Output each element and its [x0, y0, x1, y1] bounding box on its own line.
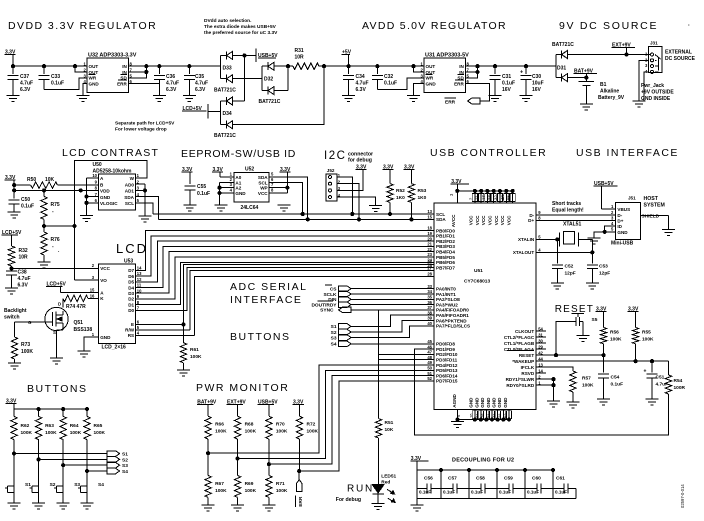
svg-text:R75: R75 — [51, 202, 60, 208]
svg-text:R54: R54 — [674, 378, 683, 384]
wire A pin — [60, 292, 98, 294]
svg-text:D6: D6 — [128, 274, 134, 279]
svg-text:For lower voltage drop: For lower voltage drop — [115, 127, 167, 133]
power flag 3.3V pwr monitor — [293, 400, 304, 417]
ground J51 — [588, 238, 601, 244]
svg-text:R31: R31 — [295, 48, 304, 54]
wire LCD D4 to PB3 — [136, 246, 434, 287]
svg-text:R70: R70 — [276, 422, 285, 428]
svg-text:ERR: ERR — [445, 100, 456, 106]
capacitor C34 — [343, 66, 368, 95]
lcd data pins D7-D0 — [128, 266, 142, 314]
led LED51 — [372, 474, 396, 504]
wire U50 SDA to bus — [135, 197, 158, 220]
wire U52 SDA to bus — [269, 177, 309, 221]
svg-text:C31: C31 — [502, 74, 511, 80]
wire pwr monitor ERR to PD — [299, 381, 434, 471]
svg-text:9V DC SOURCE: 9V DC SOURCE — [559, 20, 658, 32]
power flag BAT+9V pwr monitor — [197, 400, 217, 417]
svg-text:VCC: VCC — [100, 266, 110, 271]
svg-text:S1: S1 — [25, 482, 31, 488]
lcd pin VO — [92, 275, 108, 283]
svg-text:J51: J51 — [628, 196, 636, 201]
ground U1 — [451, 422, 464, 428]
capacitor C53 — [587, 252, 610, 283]
ground R57 — [566, 402, 579, 408]
wire 3.3V to VDD — [13, 189, 81, 192]
svg-text:R71: R71 — [276, 481, 285, 487]
ground LCD — [78, 351, 91, 357]
svg-text:20: 20 — [427, 236, 432, 241]
svg-text:VLOGIC: VLOGIC — [100, 201, 118, 206]
power flag 3.3V U1 — [451, 179, 469, 191]
svg-text:PA2/*SLOE: PA2/*SLOE — [436, 297, 460, 302]
title DVDD 3.3V REGULATOR — [8, 20, 157, 32]
svg-text:4.7uF: 4.7uF — [195, 81, 208, 87]
U1 right pin labels — [504, 210, 544, 388]
wire U52 A1 A2 GND tie — [218, 182, 234, 205]
svg-text:CLKOUT: CLKOUT — [515, 329, 534, 334]
diode D34 dual — [214, 97, 245, 139]
capacitor C55 — [184, 184, 210, 205]
title PWR MONITOR — [196, 382, 289, 394]
wire pwr monitor EXT to PD — [238, 370, 434, 458]
svg-text:DVDD 3.3V REGULATOR: DVDD 3.3V REGULATOR — [8, 20, 157, 32]
svg-text:D1: D1 — [128, 302, 134, 307]
text pwr jack — [641, 83, 674, 102]
wire CLKOUT stub — [536, 330, 546, 332]
ground C54 — [597, 399, 610, 405]
svg-text:WR: WR — [426, 76, 434, 81]
svg-text:S1: S1 — [331, 324, 337, 330]
title BUTTONS bottom — [27, 383, 87, 395]
svg-text:16V: 16V — [502, 87, 512, 93]
ground S4 — [81, 503, 94, 509]
junction button 4 — [85, 469, 88, 472]
svg-text:S2: S2 — [122, 457, 128, 463]
svg-text:ID: ID — [617, 224, 622, 229]
svg-text:11: 11 — [475, 195, 480, 200]
svg-text:18: 18 — [427, 226, 432, 231]
svg-text:R55: R55 — [642, 330, 651, 336]
lcd pin K — [90, 294, 105, 302]
wire U32 OUT tie — [73, 65, 87, 72]
ground R76 — [38, 262, 51, 268]
svg-text:Short tracks: Short tracks — [552, 201, 581, 207]
power flag 3.3V J52 — [356, 165, 367, 171]
svg-text:S3: S3 — [331, 335, 337, 341]
svg-text:XTAL51: XTAL51 — [563, 222, 581, 228]
text backlight switch — [4, 308, 32, 325]
svg-text:U50: U50 — [93, 162, 102, 168]
svg-text:C35: C35 — [195, 74, 204, 80]
diode D31 dual — [552, 42, 650, 82]
eeprom U52 24LC64 — [230, 167, 274, 212]
svg-text:PA1/INT1: PA1/INT1 — [436, 292, 456, 297]
svg-text:C55: C55 — [197, 184, 206, 190]
svg-text:A2: A2 — [235, 186, 241, 191]
resistor R56 100K — [600, 328, 622, 356]
svg-text:0.1uF: 0.1uF — [611, 382, 624, 388]
wire LCD VO — [75, 279, 99, 281]
wire LCD GND — [84, 337, 99, 351]
svg-text:Red: Red — [381, 479, 390, 485]
wire avdd rail right — [478, 65, 556, 67]
svg-text:0.1uF: 0.1uF — [471, 490, 483, 495]
power flag LCD+5V contrast — [2, 230, 22, 246]
net flag ERR pwr — [296, 471, 304, 507]
svg-text:C37: C37 — [20, 74, 29, 80]
svg-text:D2: D2 — [128, 297, 134, 302]
svg-text:R50: R50 — [27, 177, 36, 183]
wire vcc riser — [88, 267, 99, 269]
svg-text:AVCC: AVCC — [451, 214, 456, 227]
svg-text:XTALIN: XTALIN — [518, 237, 535, 242]
wire source to ground — [57, 327, 64, 358]
capacitor C51 — [644, 360, 669, 399]
svg-text:S1: S1 — [122, 452, 128, 458]
title LCD CONTRAST — [62, 147, 159, 159]
svg-text:VCC: VCC — [475, 215, 480, 225]
ground shield — [662, 230, 675, 236]
wire R31 node down to D34 bottom — [233, 66, 325, 125]
svg-text:D+: D+ — [617, 218, 623, 223]
svg-text:S4: S4 — [98, 482, 104, 488]
svg-text:GND: GND — [475, 397, 480, 408]
svg-text:0.1uF: 0.1uF — [443, 490, 455, 495]
svg-text:6.3V: 6.3V — [195, 87, 206, 93]
svg-text:44: 44 — [538, 356, 543, 361]
capacitor C54 — [598, 355, 623, 399]
svg-text:D31: D31 — [557, 66, 566, 72]
junction R31 node — [322, 65, 325, 68]
svg-text:31: 31 — [538, 332, 543, 337]
power flag EXT+9V pwr monitor — [227, 400, 247, 417]
svg-text:D3: D3 — [128, 291, 134, 296]
svg-text:PB1/FD1: PB1/FD1 — [436, 234, 455, 239]
power flag LCD+5V backlight — [46, 282, 66, 293]
ground C53 — [586, 283, 599, 289]
wire button S4 net — [87, 468, 128, 475]
crystal XTAL51 — [560, 222, 593, 247]
junction pwr USB — [267, 463, 270, 466]
ground U50 right — [139, 216, 152, 222]
svg-text:IN: IN — [122, 64, 127, 69]
svg-text:VCC: VCC — [481, 215, 486, 225]
svg-text:BUTTONS: BUTTONS — [230, 331, 290, 343]
svg-text:DIN: DIN — [328, 297, 337, 303]
svg-text:1K0: 1K0 — [418, 195, 427, 201]
svg-text:33: 33 — [427, 284, 432, 289]
svg-text:DVdd auto selection.: DVdd auto selection. — [204, 18, 251, 24]
svg-text:D32: D32 — [264, 77, 273, 83]
svg-text:D-: D- — [617, 213, 622, 218]
svg-text:RUN: RUN — [347, 484, 374, 495]
svg-text:J31: J31 — [650, 41, 658, 46]
wire J51 GND — [594, 230, 615, 238]
svg-text:S5: S5 — [592, 317, 598, 323]
ground C50 — [8, 212, 21, 218]
battery B1 — [579, 78, 625, 104]
svg-text:D+: D+ — [528, 218, 534, 223]
svg-text:D5: D5 — [128, 280, 134, 285]
svg-text:0.1uF: 0.1uF — [499, 490, 511, 495]
wire WAKEUP net — [536, 360, 668, 363]
ground C30 — [520, 96, 533, 102]
svg-text:OUT: OUT — [426, 64, 436, 69]
note short tracks — [552, 201, 584, 214]
svg-text:SDA: SDA — [258, 175, 268, 180]
power flag USB+5V pwr monitor — [258, 400, 279, 417]
svg-text:55: 55 — [506, 195, 511, 200]
wire CTL1 stub — [536, 342, 546, 344]
svg-text:PD4/FD12: PD4/FD12 — [436, 363, 458, 368]
svg-text:4.7uF: 4.7uF — [166, 81, 179, 87]
svg-text:+: + — [644, 369, 647, 375]
power flag USB+5V J51 — [594, 181, 618, 209]
svg-text:U53: U53 — [124, 259, 133, 265]
svg-text:PB7/FD7: PB7/FD7 — [436, 265, 455, 270]
ground R73 — [8, 363, 21, 369]
title USB INTERFACE — [576, 147, 679, 159]
svg-text:C30: C30 — [532, 74, 541, 80]
wire LCD D5 to PB2 — [136, 241, 434, 282]
svg-text:SCL: SCL — [125, 201, 134, 206]
wire J31 pin4 — [639, 72, 649, 101]
title RUN — [336, 484, 374, 503]
resistor R54 100R — [665, 361, 685, 394]
svg-text:S4: S4 — [122, 469, 128, 475]
wire 3.3V rail — [13, 65, 75, 67]
svg-text:100K: 100K — [307, 429, 319, 435]
svg-text:40: 40 — [427, 321, 432, 326]
switch S1 — [5, 454, 31, 503]
svg-text:C58: C58 — [476, 476, 485, 482]
wire pwr monitor USB to PD — [269, 376, 434, 465]
svg-text:CY7C68013: CY7C68013 — [464, 279, 490, 285]
svg-text:34: 34 — [427, 289, 432, 294]
svg-text:RDY0/*SLRD: RDY0/*SLRD — [506, 383, 535, 388]
junction USB+5V node — [243, 54, 246, 57]
svg-text:100K: 100K — [45, 430, 57, 436]
svg-text:D33: D33 — [223, 66, 232, 72]
ground S3 — [57, 503, 70, 509]
svg-text:C61: C61 — [556, 476, 565, 482]
ground U52 right — [278, 205, 291, 211]
svg-text:PB3/FD3: PB3/FD3 — [436, 244, 455, 249]
ground C35 — [183, 96, 196, 102]
svg-text:24: 24 — [427, 258, 432, 263]
power flag 3.3V lcd contrast — [5, 175, 16, 190]
svg-text:D0: D0 — [128, 308, 134, 313]
svg-text:BUTTONS: BUTTONS — [27, 383, 87, 395]
junction C36 — [158, 65, 161, 68]
svg-text:PA7/*FLD/SLCS: PA7/*FLD/SLCS — [436, 324, 470, 329]
svg-text:100R: 100R — [674, 385, 686, 391]
svg-text:R61: R61 — [190, 347, 199, 353]
svg-text:49: 49 — [427, 360, 432, 365]
wire LCD D0 to PB7 — [136, 268, 434, 311]
resistor R55 100K — [632, 328, 654, 362]
U1 ground pins — [452, 393, 512, 421]
flaga underline — [507, 350, 534, 352]
junction C31 — [493, 65, 496, 68]
title AVDD 5.0V REGULATOR — [362, 20, 507, 32]
ground J52 — [369, 206, 382, 212]
svg-text:PD6/FD14: PD6/FD14 — [436, 373, 458, 378]
svg-text:GND: GND — [491, 397, 496, 408]
power flag BAT+9V — [574, 69, 598, 80]
resistor R32 10R — [8, 246, 28, 266]
capacitor C37 — [8, 66, 34, 95]
svg-text:51: 51 — [427, 371, 432, 376]
svg-text:0.1uF: 0.1uF — [197, 191, 210, 197]
resistor R72 100K — [296, 416, 318, 471]
wire XTALIN — [536, 238, 559, 241]
ground Q51 source — [50, 358, 63, 364]
junction pwr ERR — [298, 470, 301, 473]
svg-text:PD3/FD11: PD3/FD11 — [436, 358, 458, 363]
svg-text:D34: D34 — [223, 111, 232, 117]
decoupling capacitors C56-C61 — [417, 470, 576, 505]
svg-text:GND: GND — [486, 397, 491, 408]
svg-text:U51: U51 — [474, 268, 483, 274]
wire LCD RW to U1 pin 27 — [136, 266, 434, 330]
ground U52 left — [215, 205, 228, 211]
wire rail to C32 — [349, 65, 417, 67]
ground S1 — [8, 503, 21, 509]
svg-text:C36: C36 — [166, 74, 175, 80]
connector J51 mini-usb — [611, 196, 641, 247]
wire J51 ID — [605, 226, 616, 232]
svg-text:XTALOUT: XTALOUT — [513, 250, 535, 255]
wire U32 IN tie — [128, 65, 148, 78]
svg-text:BSS138: BSS138 — [74, 327, 93, 333]
capacitor C52 — [552, 239, 576, 283]
svg-text:IFCLK: IFCLK — [521, 365, 535, 370]
power flag 3.3V R52 — [383, 165, 394, 184]
wire RSVD stub — [536, 372, 546, 374]
wire RESET net — [536, 354, 605, 357]
svg-text:A1: A1 — [235, 180, 241, 185]
lcd pin E — [131, 320, 140, 328]
svg-text:21: 21 — [427, 242, 432, 247]
wire buttons rail — [14, 408, 87, 410]
svg-text:RESET: RESET — [519, 353, 535, 358]
ground C36 — [153, 96, 166, 102]
svg-text:4.7uF: 4.7uF — [18, 276, 31, 282]
svg-text:C50: C50 — [21, 197, 30, 203]
svg-text:0.1uF: 0.1uF — [527, 490, 539, 495]
svg-text:BAT721C: BAT721C — [552, 42, 574, 48]
wire U31 IN tie — [465, 65, 479, 78]
svg-text:J52: J52 — [327, 168, 335, 173]
wire IFCLK to R57 — [536, 367, 573, 371]
svg-text:37: 37 — [427, 305, 432, 310]
title ADC SERIAL INTERFACE — [230, 281, 307, 306]
power flag 3.3V A0 — [212, 167, 223, 177]
wire WP VCC tie — [269, 186, 289, 193]
ground LED51 — [372, 504, 385, 510]
svg-text:+9V OUTSIDE: +9V OUTSIDE — [641, 90, 674, 96]
svg-text:R65: R65 — [94, 423, 103, 429]
ground S5 — [577, 336, 590, 342]
svg-text:24LC64: 24LC64 — [241, 205, 259, 211]
svg-text:100K: 100K — [215, 488, 227, 494]
switch S4 — [78, 471, 104, 503]
svg-text:CTL2/*FLAGC: CTL2/*FLAGC — [504, 335, 535, 340]
wire S5 to gnd — [580, 322, 584, 336]
svg-text:SHIELD: SHIELD — [642, 213, 660, 219]
wire R51 to LED — [378, 438, 380, 485]
switch S3 — [54, 465, 80, 503]
transistor Q51 BSS138 — [45, 307, 93, 335]
svg-text:ERR: ERR — [454, 81, 464, 86]
wire LCD E — [136, 323, 185, 326]
wire U32 GND pin to ground — [83, 84, 87, 96]
svg-text:ERR: ERR — [117, 81, 127, 86]
svg-text:PB4/FD4: PB4/FD4 — [436, 250, 455, 255]
svg-text:LCD CONTRAST: LCD CONTRAST — [62, 147, 159, 159]
svg-text:USB INTERFACE: USB INTERFACE — [576, 147, 679, 159]
diode D33 dual — [214, 51, 262, 93]
resistor R74 47R — [63, 295, 99, 310]
title RESET — [555, 304, 594, 315]
svg-text:D-: D- — [529, 213, 534, 218]
resistor R65 100K — [84, 408, 106, 472]
svg-text:DOUT/RDY: DOUT/RDY — [311, 302, 337, 308]
svg-text:16V: 16V — [532, 87, 542, 93]
svg-text:W: W — [130, 176, 135, 181]
wire U31 OUT tie — [412, 65, 424, 72]
capacitor C36 — [154, 66, 179, 95]
svg-text:4.7uF: 4.7uF — [656, 382, 669, 388]
svg-text:6.3V: 6.3V — [18, 283, 29, 289]
title 9V DC SOURCE — [559, 20, 690, 32]
svg-text:6.3V: 6.3V — [166, 87, 177, 93]
svg-text:39: 39 — [427, 316, 432, 321]
capacitor C30 polarized — [520, 66, 544, 95]
svg-text:RS: RS — [128, 333, 134, 338]
wire J52 pin1 to SCL — [337, 177, 354, 216]
svg-text:S3: S3 — [74, 482, 80, 488]
svg-text:13: 13 — [427, 209, 432, 214]
svg-text:Q51: Q51 — [74, 320, 84, 326]
ground B1 — [580, 104, 593, 110]
svg-text:C52: C52 — [565, 263, 574, 269]
svg-text:Mini-USB: Mini-USB — [611, 241, 634, 247]
note separate path — [115, 121, 175, 133]
svg-text:VDD: VDD — [100, 189, 110, 194]
svg-text:GND: GND — [480, 397, 485, 408]
svg-text:AD0: AD0 — [125, 182, 135, 187]
resistor R57 100K — [570, 371, 594, 402]
svg-text:GND: GND — [469, 397, 474, 408]
svg-text:WP: WP — [260, 186, 267, 191]
resistor R76 — [41, 226, 60, 262]
svg-text:USB CONTROLLER: USB CONTROLLER — [430, 147, 547, 159]
power flag 3.3V U52 vcc — [280, 167, 291, 188]
wire gate to R73 — [15, 322, 45, 337]
ground C34 — [342, 96, 355, 102]
wire PD1 to R54 — [414, 349, 668, 435]
ground U32 — [77, 96, 90, 102]
wire J51 shield — [641, 216, 669, 230]
svg-text:SYNC: SYNC — [320, 308, 334, 314]
svg-text:the preferred source for uC 3.: the preferred source for uC 3.3V — [204, 30, 278, 36]
svg-text:HOST: HOST — [644, 196, 659, 202]
voltage regulator U32 ADP3303-3.3V — [84, 53, 137, 93]
